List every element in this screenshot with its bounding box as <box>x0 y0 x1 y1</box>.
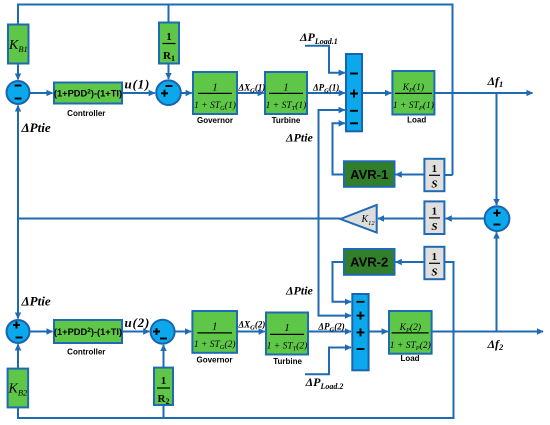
svg-text:1: 1 <box>284 322 290 334</box>
svg-text:ΔPtie: ΔPtie <box>285 131 314 145</box>
svg-text:1: 1 <box>432 163 438 175</box>
svg-text:S: S <box>431 179 437 191</box>
svg-text:Turbine: Turbine <box>273 357 302 366</box>
svg-text:u(1): u(1) <box>125 77 151 92</box>
svg-text:Turbine: Turbine <box>272 116 301 125</box>
svg-text:1 + STP(1): 1 + STP(1) <box>393 100 434 112</box>
svg-text:1: 1 <box>432 251 438 263</box>
svg-text:1: 1 <box>212 321 218 333</box>
svg-text:ΔPtie: ΔPtie <box>285 284 314 298</box>
svg-text:1: 1 <box>161 375 167 387</box>
svg-text:1: 1 <box>283 82 289 94</box>
svg-text:1 + STG(1): 1 + STG(1) <box>194 100 236 112</box>
svg-text:1 + STT(2): 1 + STT(2) <box>267 341 308 353</box>
svg-text:1 + STG(2): 1 + STG(2) <box>194 339 236 351</box>
svg-text:Controller: Controller <box>67 109 105 118</box>
svg-text:KP(1): KP(1) <box>402 82 424 94</box>
svg-text:1 + STP(2): 1 + STP(2) <box>390 340 431 352</box>
svg-text:ΔPLoad.1: ΔPLoad.1 <box>299 30 338 46</box>
svg-text:1: 1 <box>212 82 218 94</box>
svg-text:Load: Load <box>407 116 426 125</box>
svg-text:ΔPtie: ΔPtie <box>21 120 51 135</box>
svg-text:ΔPtie: ΔPtie <box>21 294 51 309</box>
svg-text:KP(2): KP(2) <box>399 322 421 334</box>
svg-text:u(2): u(2) <box>125 315 151 330</box>
svg-text:AVR-1: AVR-1 <box>350 167 388 182</box>
svg-text:AVR-2: AVR-2 <box>350 255 388 270</box>
svg-text:S: S <box>431 221 437 233</box>
svg-text:S: S <box>431 267 437 279</box>
svg-text:Load: Load <box>400 354 419 363</box>
svg-text:Δf1: Δf1 <box>487 74 504 89</box>
svg-text:1: 1 <box>432 206 438 218</box>
svg-text:1 + STT(1): 1 + STT(1) <box>266 100 307 112</box>
svg-text:ΔPLoad.2: ΔPLoad.2 <box>305 375 344 391</box>
svg-text:Governor: Governor <box>197 116 233 125</box>
svg-text:Controller: Controller <box>67 348 105 357</box>
svg-text:1: 1 <box>166 31 172 43</box>
svg-text:Governor: Governor <box>196 355 232 364</box>
svg-text:ΔXG(2): ΔXG(2) <box>238 320 266 332</box>
svg-text:Δf2: Δf2 <box>487 337 505 352</box>
